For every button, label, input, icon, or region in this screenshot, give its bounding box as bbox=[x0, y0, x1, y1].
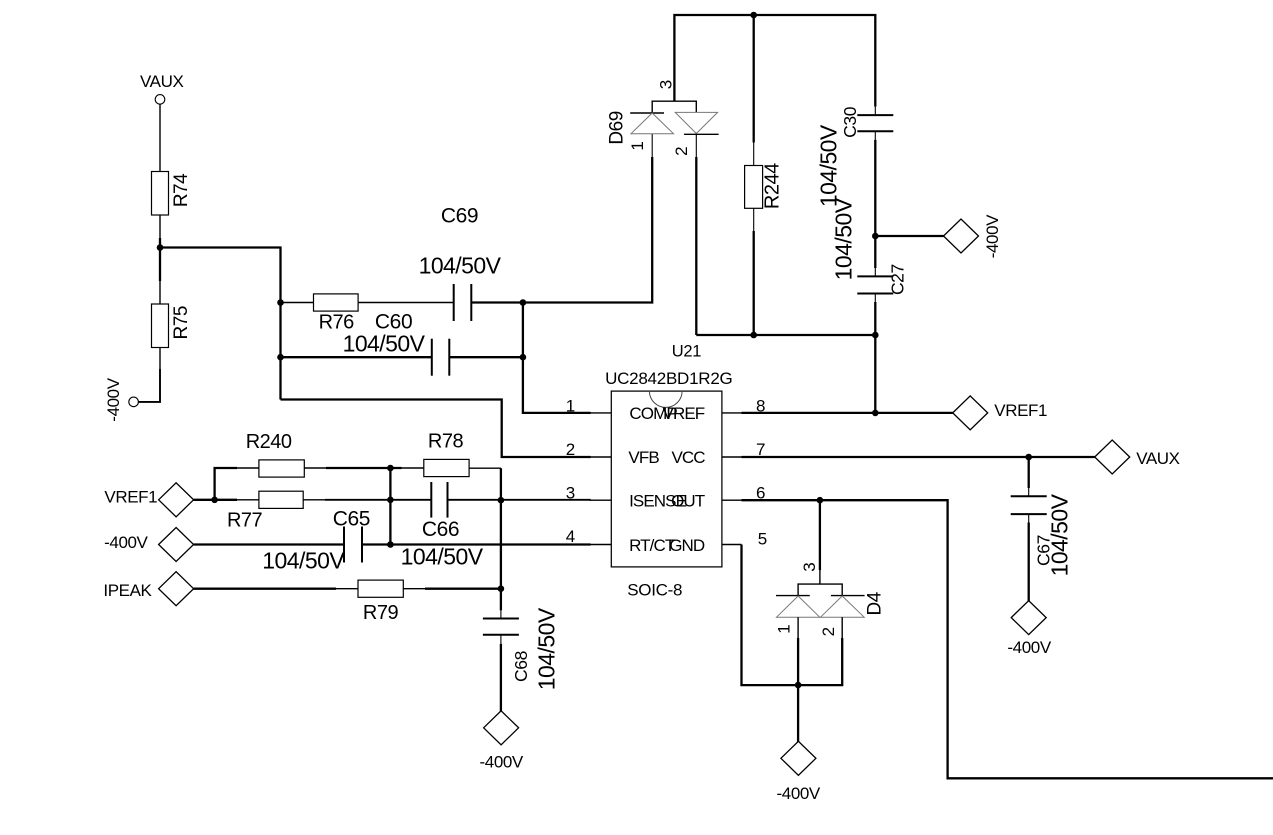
svg-text:3: 3 bbox=[656, 80, 675, 89]
wire R78 to C68 column bbox=[469, 468, 501, 500]
net label -400V (below D4) bbox=[777, 784, 821, 803]
label C65 bbox=[333, 507, 370, 530]
svg-text:-400V: -400V bbox=[1007, 638, 1051, 657]
svg-text:-400V: -400V bbox=[777, 784, 821, 803]
port -400V (below C67) bbox=[1011, 601, 1046, 635]
wire C66 to IC pin 3 bbox=[448, 499, 591, 501]
pin number 7 bbox=[756, 440, 765, 459]
port -400V (left) bbox=[159, 528, 194, 562]
wire node A to R75 bbox=[159, 248, 161, 305]
svg-text:IPEAK: IPEAK bbox=[103, 581, 152, 600]
label C67 (rotated) bbox=[1034, 535, 1054, 566]
svg-text:2: 2 bbox=[566, 440, 575, 459]
resistor R76 bbox=[314, 294, 359, 333]
pin lead 3 bbox=[590, 499, 612, 501]
label C27 (rotated) bbox=[888, 264, 908, 295]
pin name RT/CT bbox=[629, 536, 675, 555]
wire VFB link (bottom of column to pin 2) bbox=[281, 400, 591, 458]
svg-text:UC2842BD1R2G: UC2842BD1R2G bbox=[605, 369, 732, 388]
capacitor C30 bbox=[857, 115, 893, 131]
junction top rail at R244 bbox=[750, 12, 757, 19]
svg-text:D69: D69 bbox=[606, 111, 627, 144]
pin number 1 (D69) bbox=[628, 141, 647, 150]
svg-text:GND: GND bbox=[669, 536, 705, 555]
wire IC pin 8 to VREF1 port bbox=[742, 412, 953, 414]
label C68 (rotated) bbox=[511, 651, 531, 682]
wire -400V port to C65 bbox=[194, 543, 344, 545]
capacitor C68 bbox=[483, 619, 519, 635]
svg-text:2: 2 bbox=[672, 146, 691, 155]
pin lead 1 bbox=[590, 412, 612, 414]
port VREF1 (right) bbox=[953, 396, 988, 430]
value 104/50V (C27, rotated) bbox=[831, 197, 857, 280]
svg-text:RT/CT: RT/CT bbox=[629, 536, 675, 555]
wire C27 bottom through rail to VREF1 row bbox=[874, 294, 876, 413]
svg-text:C68: C68 bbox=[511, 651, 531, 682]
svg-text:1: 1 bbox=[566, 397, 575, 416]
label D69 (rotated) bbox=[606, 111, 627, 144]
resistor R78 bbox=[424, 430, 469, 476]
svg-text:104/50V: 104/50V bbox=[1047, 493, 1073, 576]
svg-text:VAUX: VAUX bbox=[140, 72, 183, 91]
net label IPEAK (left) bbox=[103, 581, 152, 600]
wire IPEAK port to R79 bbox=[194, 588, 358, 590]
wire VREF1 port to node G bbox=[194, 499, 215, 501]
wire R244 top lead bbox=[753, 15, 755, 166]
svg-text:R78: R78 bbox=[428, 430, 464, 452]
wire VREF1 rail (bottom of D69 block) bbox=[696, 334, 875, 336]
node A junction (R74/R75/VFB) bbox=[157, 244, 164, 251]
svg-text:VFB: VFB bbox=[628, 448, 659, 467]
wire IC pin 6 net (to bottom right) bbox=[742, 500, 1273, 778]
label D4 (rotated) bbox=[864, 591, 885, 615]
label C69 bbox=[441, 204, 478, 227]
label C60 bbox=[375, 310, 412, 333]
wire node C to C60 bbox=[281, 356, 432, 358]
svg-text:D4: D4 bbox=[864, 591, 885, 615]
pin number 5 bbox=[758, 530, 767, 549]
svg-text:C27: C27 bbox=[888, 264, 908, 295]
capacitor C65 bbox=[344, 527, 362, 563]
svg-text:2: 2 bbox=[819, 627, 838, 636]
svg-text:VAUX: VAUX bbox=[1136, 449, 1179, 468]
pin name COMP bbox=[629, 404, 677, 423]
svg-text:VREF: VREF bbox=[663, 404, 705, 423]
net label -400V (left) bbox=[104, 533, 148, 552]
svg-text:104/50V: 104/50V bbox=[343, 331, 426, 357]
junction node N (GND rail) bbox=[795, 682, 802, 689]
net label VAUX (right) bbox=[1136, 449, 1179, 468]
wire node D-E column to IC pin 1 bbox=[523, 303, 591, 413]
wire IC pin 7 to VAUX port bbox=[742, 456, 1095, 458]
pin name GND bbox=[669, 536, 705, 555]
pin number 3 (D69) bbox=[656, 80, 675, 89]
pin name VCC bbox=[671, 448, 705, 467]
pin lead 4 bbox=[590, 544, 612, 546]
wire R240 to R78 bbox=[304, 467, 424, 469]
junction node I (pin3/C68 column) bbox=[498, 497, 505, 504]
pin lead 8 bbox=[722, 412, 742, 414]
value 104/50V (C65) bbox=[262, 547, 345, 573]
svg-text:R75: R75 bbox=[171, 306, 192, 339]
wire D69 pin 2 down to VREF1 rail bbox=[695, 134, 697, 335]
pin number 3 bbox=[566, 483, 575, 502]
svg-text:104/50V: 104/50V bbox=[831, 197, 857, 280]
dual diode D69 bbox=[630, 101, 718, 134]
wire R79 to C68 column bbox=[403, 588, 501, 590]
wire node N to -400V port bbox=[797, 685, 799, 742]
net label VAUX (top-left) bbox=[140, 72, 183, 91]
capacitor C27 bbox=[857, 276, 893, 293]
svg-text:1: 1 bbox=[628, 141, 647, 150]
svg-text:-400V: -400V bbox=[104, 377, 123, 421]
svg-text:U21: U21 bbox=[672, 343, 701, 361]
wire node F to -400V port (top right) bbox=[875, 235, 943, 237]
value 104/50V (C66) bbox=[401, 544, 484, 570]
pin name ISENSE bbox=[629, 492, 687, 511]
wire C60 to node E bbox=[449, 356, 523, 358]
capacitor C69 bbox=[454, 284, 472, 321]
svg-text:C69: C69 bbox=[441, 204, 478, 227]
label C66 bbox=[422, 518, 459, 541]
pin name OUT bbox=[671, 492, 705, 511]
net label -400V (top right, rotated) bbox=[983, 214, 1002, 258]
svg-text:R240: R240 bbox=[246, 431, 292, 453]
net label -400V (below C67) bbox=[1007, 638, 1051, 657]
junction node D (pin1/C69 row) bbox=[520, 299, 527, 306]
terminal VAUX (top-left) bbox=[155, 95, 165, 105]
pin name VREF bbox=[663, 404, 705, 423]
svg-text:104/50V: 104/50V bbox=[816, 124, 842, 207]
svg-text:-400V: -400V bbox=[480, 752, 524, 771]
wire C69 to D69 anode column bbox=[471, 301, 523, 303]
pin name VFB bbox=[628, 448, 659, 467]
capacitor C66 bbox=[431, 482, 447, 518]
port IPEAK (left) bbox=[159, 572, 194, 606]
wire D4 pin 2 lead bbox=[841, 617, 843, 638]
label U21 bbox=[672, 343, 701, 361]
wire R76 to C69 bbox=[358, 302, 454, 304]
value 104/50V (C69) bbox=[419, 252, 502, 278]
wire C30 bottom to node F bbox=[874, 131, 876, 276]
net label -400V (bottom-left, rotated) bbox=[104, 377, 123, 421]
pin number 3 (D4) bbox=[800, 562, 819, 571]
svg-text:104/50V: 104/50V bbox=[534, 607, 560, 690]
pin lead 7 bbox=[722, 456, 742, 458]
svg-text:R77: R77 bbox=[227, 510, 263, 532]
pin number 2 bbox=[566, 440, 575, 459]
port -400V (below C68) bbox=[484, 711, 519, 745]
wire R75 to -400V terminal bbox=[138, 348, 160, 402]
junction node M (D4 tap) bbox=[817, 497, 824, 504]
wire R244 bottom lead bbox=[753, 208, 755, 335]
wire C65 to IC pin 4 bbox=[362, 543, 591, 545]
capacitor C60 bbox=[432, 339, 450, 376]
junction rail at R244 bbox=[750, 332, 757, 339]
junction node H (R240/R78 row) bbox=[387, 465, 394, 472]
wire C68 column down bbox=[500, 500, 502, 618]
junction node B (R76 row) bbox=[277, 299, 284, 306]
svg-text:VREF1: VREF1 bbox=[104, 488, 157, 507]
wire top rail (D69 pin3 - R244 - C30) bbox=[674, 15, 875, 115]
junction node J (row4) bbox=[387, 541, 394, 548]
pin number 1 (D4) bbox=[775, 624, 794, 633]
value 104/50V (C30, rotated) bbox=[816, 124, 842, 207]
junction node K (R79/C68 column) bbox=[498, 585, 505, 592]
net label VREF1 (left) bbox=[104, 488, 157, 507]
svg-text:OUT: OUT bbox=[671, 492, 705, 511]
junction node C (C60 row) bbox=[277, 354, 284, 361]
wire VAUX terminal to R74 bbox=[159, 104, 161, 171]
wire node G to R77 bbox=[215, 499, 259, 501]
resistor R244 bbox=[745, 163, 784, 209]
dual diode D4 bbox=[776, 584, 865, 617]
svg-text:-400V: -400V bbox=[104, 533, 148, 552]
pin lead 5 bbox=[722, 544, 742, 546]
port -400V (below D4) bbox=[781, 741, 816, 775]
pin number 2 (D4) bbox=[819, 627, 838, 636]
value 104/50V (C60) bbox=[343, 331, 426, 357]
svg-text:-400V: -400V bbox=[983, 214, 1002, 258]
wire C67 to -400V port bbox=[1028, 514, 1030, 601]
resistor R240 bbox=[246, 431, 305, 477]
svg-text:3: 3 bbox=[800, 562, 819, 571]
label SOIC-8 bbox=[627, 580, 682, 599]
wire node D up to D69 pin 1 bbox=[523, 134, 652, 303]
junction rail at C27 column bbox=[872, 332, 879, 339]
terminal -400V (bottom-left) bbox=[129, 397, 139, 407]
svg-text:C30: C30 bbox=[840, 106, 860, 138]
net label -400V (below C68) bbox=[480, 752, 524, 771]
value 104/50V (C67, rotated) bbox=[1047, 493, 1073, 576]
svg-text:C65: C65 bbox=[333, 507, 370, 530]
pin number 4 bbox=[566, 527, 575, 546]
svg-text:R79: R79 bbox=[363, 602, 399, 624]
label UC2842BD1R2G bbox=[605, 369, 732, 388]
wire node L to C67 bbox=[1028, 457, 1030, 496]
wire node M down to D4 pin 3 bbox=[819, 500, 821, 584]
svg-text:C66: C66 bbox=[422, 518, 459, 541]
pin number 8 bbox=[756, 397, 765, 416]
pin lead 6 bbox=[722, 499, 742, 501]
svg-text:R244: R244 bbox=[761, 163, 783, 209]
junction node E (C60/pin1 column) bbox=[520, 354, 527, 361]
junction node H2 (pin3 row) bbox=[387, 497, 394, 504]
resistor R77 bbox=[227, 491, 303, 531]
wire R77 to C66 bbox=[303, 499, 431, 501]
svg-text:R74: R74 bbox=[171, 173, 192, 207]
resistor R75 bbox=[152, 304, 193, 348]
wire C68 to -400V port bbox=[500, 635, 502, 712]
value 104/50V (C68, rotated) bbox=[534, 607, 560, 690]
pin number 1 bbox=[566, 397, 575, 416]
wire column H (node H to -400V row) bbox=[389, 468, 391, 545]
net label VREF1 (right) bbox=[994, 401, 1047, 420]
port VREF1 (left) bbox=[159, 483, 194, 517]
pin number 6 bbox=[756, 483, 765, 502]
wire IC pin 5 to GND rail bbox=[742, 545, 843, 686]
resistor R74 bbox=[152, 172, 193, 216]
wire R74 to node A bbox=[159, 215, 161, 248]
port -400V (top right) bbox=[944, 219, 979, 253]
wire node A to feedback column bbox=[160, 248, 281, 400]
resistor R79 bbox=[358, 580, 403, 624]
svg-text:104/50V: 104/50V bbox=[401, 544, 484, 570]
wire D4 pin 1 down bbox=[797, 617, 799, 685]
junction node L (C67 tap) bbox=[1025, 454, 1032, 461]
svg-text:VREF1: VREF1 bbox=[994, 401, 1047, 420]
svg-text:104/50V: 104/50V bbox=[262, 547, 345, 573]
svg-text:5: 5 bbox=[758, 530, 767, 549]
capacitor C67 bbox=[1011, 496, 1047, 514]
junction VREF1 row at C27 column bbox=[872, 410, 879, 417]
svg-text:104/50V: 104/50V bbox=[419, 252, 502, 278]
port VAUX (right) bbox=[1095, 440, 1130, 474]
pin lead 2 bbox=[590, 456, 612, 458]
wire node G up to R240 bbox=[215, 468, 259, 500]
op-amp/PWM controller U21 UC2842BD1R2G bbox=[611, 391, 722, 567]
junction node F (-400V tap) bbox=[872, 233, 879, 240]
junction node G bbox=[211, 497, 218, 504]
svg-text:SOIC-8: SOIC-8 bbox=[627, 580, 682, 599]
svg-text:VCC: VCC bbox=[671, 448, 705, 467]
pin number 2 (D69) bbox=[672, 146, 691, 155]
svg-text:1: 1 bbox=[775, 624, 794, 633]
wire node B to R76 bbox=[281, 302, 314, 304]
label C30 (rotated) bbox=[840, 106, 860, 138]
